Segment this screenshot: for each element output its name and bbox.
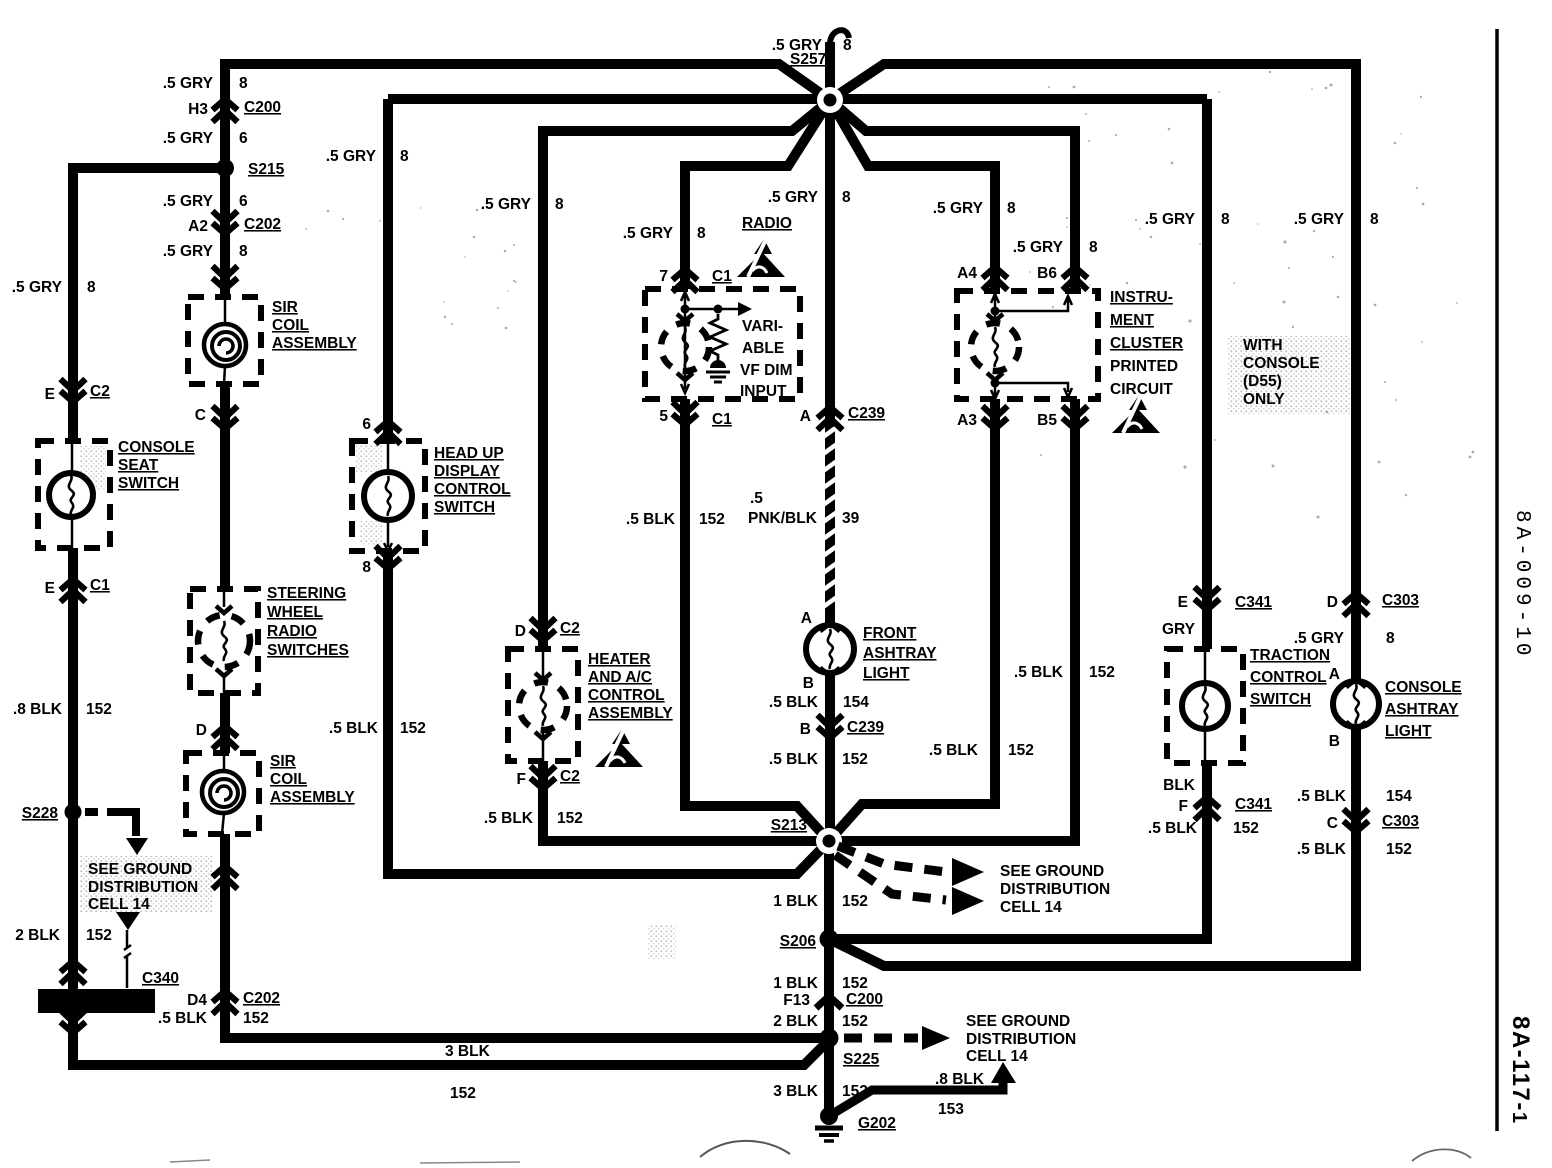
svg-text:DISTRIBUTION: DISTRIBUTION <box>966 1031 1076 1048</box>
wire: head-up column lower to S213 <box>388 551 829 874</box>
svg-text:.5 BLK: .5 BLK <box>1148 820 1198 837</box>
svg-text:STEERING: STEERING <box>267 585 346 602</box>
inline connector below SIR coil2 <box>213 877 238 889</box>
svg-text:152: 152 <box>1386 841 1412 858</box>
wire: S257 down center column to front ashtray lamp <box>825 100 835 626</box>
connector B5 (cluster) <box>1063 406 1088 418</box>
svg-text:D4: D4 <box>187 992 207 1009</box>
svg-text:CONTROL: CONTROL <box>434 481 511 498</box>
connector B C239 <box>818 715 843 727</box>
wire: front ashtray lamp to S213 <box>825 672 835 841</box>
svg-text:B6: B6 <box>1037 265 1057 282</box>
svg-text:6: 6 <box>239 130 248 147</box>
front ashtray light lamp <box>806 625 854 673</box>
svg-text:AND A/C: AND A/C <box>588 669 652 686</box>
svg-text:.8 BLK: .8 BLK <box>935 1071 985 1088</box>
svg-text:8: 8 <box>1089 239 1098 256</box>
svg-text:152: 152 <box>400 720 426 737</box>
svg-text:C202: C202 <box>244 216 281 233</box>
svg-text:D: D <box>515 623 526 640</box>
dashed stub S213 to ground distribution note (lower) <box>835 855 946 900</box>
svg-text:CONSOLE: CONSOLE <box>118 439 195 456</box>
svg-text:B: B <box>800 721 811 738</box>
console seat switch <box>38 441 110 548</box>
svg-text:.5 BLK: .5 BLK <box>158 1010 208 1027</box>
ESD symbol radio <box>737 252 785 277</box>
wire: S257 up stub with hook <box>825 42 835 100</box>
wire: traction control lower to S206 <box>829 762 1207 939</box>
svg-text:S215: S215 <box>248 161 285 178</box>
svg-text:.5 BLK: .5 BLK <box>1297 788 1347 805</box>
svg-text:VF DIM: VF DIM <box>740 362 793 379</box>
svg-text:.5 GRY: .5 GRY <box>163 193 214 210</box>
svg-text:F: F <box>517 771 526 788</box>
svg-text:C239: C239 <box>848 405 885 422</box>
connector 8 (head-up bottom) <box>376 546 401 558</box>
svg-text:SIR: SIR <box>272 299 298 316</box>
radio internal ground <box>710 360 726 368</box>
svg-text:E: E <box>45 580 55 597</box>
svg-text:C2: C2 <box>90 383 110 400</box>
svg-text:.5 GRY: .5 GRY <box>1145 211 1196 228</box>
svg-text:COIL: COIL <box>272 317 309 334</box>
heater and A/C control assembly <box>508 649 578 761</box>
svg-text:ASHTRAY: ASHTRAY <box>1385 701 1459 718</box>
inline connector above C340 <box>61 972 86 984</box>
connector D (to SIR coil2) <box>213 737 238 749</box>
svg-text:8: 8 <box>1221 211 1230 228</box>
connector C (SIR coil out) <box>213 406 238 418</box>
svg-text:152: 152 <box>450 1085 476 1102</box>
svg-text:A: A <box>801 610 812 627</box>
connector F13 C200 half <box>816 996 842 1008</box>
scan speckles <box>305 59 1474 518</box>
connector D C2 (heater) <box>531 618 556 630</box>
wire: console ashtray lamp to S206 <box>829 726 1356 966</box>
svg-text:.5 BLK: .5 BLK <box>769 751 819 768</box>
wire: center horizontal through S257 (x388 to x1207) <box>388 94 1207 104</box>
svg-text:SIR: SIR <box>270 753 296 770</box>
svg-text:S213: S213 <box>771 817 808 834</box>
svg-text:8: 8 <box>842 189 851 206</box>
svg-text:152: 152 <box>842 893 868 910</box>
svg-text:HEAD UP: HEAD UP <box>434 445 504 462</box>
wire: C340 to S225 (bottom left run) <box>73 1012 829 1065</box>
instrument cluster printed circuit box <box>957 291 1098 399</box>
svg-text:6: 6 <box>239 193 248 210</box>
connector 6 (head-up top) <box>376 432 401 444</box>
svg-text:CELL 14: CELL 14 <box>88 896 150 913</box>
wire: S257 to heater column (y=131) <box>543 100 830 649</box>
splice S257 <box>817 87 843 113</box>
radio variable resistor <box>710 314 726 361</box>
connector D4 C202 <box>213 1002 238 1014</box>
svg-text:CONTROL: CONTROL <box>1250 669 1327 686</box>
svg-text:CONSOLE: CONSOLE <box>1385 679 1462 696</box>
svg-text:6: 6 <box>362 416 371 433</box>
svg-text:152: 152 <box>86 701 112 718</box>
wire: S257 to radio column (y=166) <box>685 100 830 289</box>
wire: head-up column upper <box>383 99 393 441</box>
svg-text:152: 152 <box>842 1013 868 1030</box>
svg-text:B5: B5 <box>1037 412 1057 429</box>
svg-text:152: 152 <box>557 810 583 827</box>
svg-text:ASSEMBLY: ASSEMBLY <box>588 705 673 722</box>
svg-text:8: 8 <box>555 196 564 213</box>
ESD symbol heater <box>595 742 643 767</box>
svg-text:152: 152 <box>842 975 868 992</box>
svg-text:RADIO: RADIO <box>267 623 317 640</box>
svg-text:3 BLK: 3 BLK <box>773 1083 819 1100</box>
svg-text:S257: S257 <box>790 51 826 68</box>
svg-text:B: B <box>1329 733 1340 750</box>
ground G202 symbol <box>820 1107 838 1125</box>
svg-text:(D55): (D55) <box>1243 373 1282 390</box>
wire: S257 to cluster B6 (y=131 right) <box>830 100 1075 291</box>
svg-text:C2: C2 <box>560 768 580 785</box>
halftone patch below head-up lamp <box>360 521 382 545</box>
dashed stub S213 to ground distribution note (upper) <box>838 846 946 872</box>
svg-text:8: 8 <box>1370 211 1379 228</box>
wire: S215 west to console-seat column corner <box>73 168 229 441</box>
connector D C303 (console ashtray) <box>1344 604 1369 616</box>
svg-text:HEATER: HEATER <box>588 651 651 668</box>
svg-text:8: 8 <box>1007 200 1016 217</box>
svg-text:5: 5 <box>659 408 668 425</box>
svg-text:FRONT: FRONT <box>863 625 917 642</box>
svg-text:INSTRU-: INSTRU- <box>1110 289 1173 306</box>
svg-text:G202: G202 <box>858 1115 896 1132</box>
connector H3 C200 <box>213 110 238 122</box>
splice S225 <box>820 1029 839 1048</box>
svg-text:8: 8 <box>239 75 248 92</box>
svg-text:8A-009-10: 8A-009-10 <box>1510 510 1533 659</box>
connector C C303 (console ashtray) <box>1344 809 1369 821</box>
console ashtray light lamp <box>1333 681 1379 727</box>
wire: steering switches to SIR coil2 <box>220 693 230 753</box>
svg-text:C239: C239 <box>847 719 884 736</box>
svg-text:C200: C200 <box>846 991 883 1008</box>
svg-text:A: A <box>800 408 811 425</box>
svg-text:H3: H3 <box>188 101 208 118</box>
bottom scan curve marks <box>700 1141 790 1157</box>
wire: S213 down to G202 <box>824 841 834 1118</box>
svg-text:.5 BLK: .5 BLK <box>769 694 819 711</box>
svg-text:.5: .5 <box>750 490 763 507</box>
svg-text:C1: C1 <box>712 411 732 428</box>
cluster internal wiring top <box>991 291 999 320</box>
svg-text:C200: C200 <box>244 99 281 116</box>
svg-text:RADIO: RADIO <box>742 215 792 232</box>
connector A3 (cluster) <box>983 406 1008 418</box>
svg-text:LIGHT: LIGHT <box>863 665 910 682</box>
connector B6 (cluster) <box>1063 278 1088 290</box>
svg-text:LIGHT: LIGHT <box>1385 723 1432 740</box>
wire: S257 to instrument cluster A4 (y=166 right) <box>830 100 995 291</box>
svg-text:2 BLK: 2 BLK <box>773 1013 819 1030</box>
svg-text:SEE GROUND: SEE GROUND <box>966 1013 1070 1030</box>
svg-text:154: 154 <box>1386 788 1412 805</box>
dashed stub S225 to ground distribution note <box>844 1034 918 1043</box>
wire: S257 east to traction control column <box>1202 99 1212 649</box>
svg-text:.5 BLK: .5 BLK <box>929 742 979 759</box>
svg-text:SWITCH: SWITCH <box>434 499 495 516</box>
wire: heater column lower to S213 <box>543 761 829 841</box>
radio internal wiring <box>681 289 689 393</box>
cluster internal wiring bottom <box>991 379 1000 388</box>
svg-text:A3: A3 <box>957 412 977 429</box>
connector C340 (black block) <box>38 989 155 1013</box>
svg-text:SWITCHES: SWITCHES <box>267 642 349 659</box>
svg-text:CELL 14: CELL 14 <box>1000 899 1062 916</box>
svg-text:3 BLK: 3 BLK <box>445 1043 491 1060</box>
svg-text:.5 GRY: .5 GRY <box>623 225 674 242</box>
svg-text:SWITCH: SWITCH <box>118 475 179 492</box>
connector A2 C202 <box>213 211 238 223</box>
svg-text:F: F <box>1179 798 1188 815</box>
svg-text:ASSEMBLY: ASSEMBLY <box>270 789 355 806</box>
halftone patch behind SEE GROUND note left <box>80 856 212 912</box>
svg-text:.5 BLK: .5 BLK <box>1297 841 1347 858</box>
svg-text:.5 BLK: .5 BLK <box>484 810 534 827</box>
radio lamp <box>661 323 709 371</box>
svg-text:D: D <box>1327 594 1338 611</box>
PNK/BLK striped wire hatch <box>823 427 837 607</box>
svg-text:A: A <box>1329 666 1340 683</box>
connector A C239 <box>818 418 843 430</box>
svg-text:C2: C2 <box>560 620 580 637</box>
wire: G202 branch .8 BLK 153 <box>829 1080 1003 1116</box>
svg-text:S228: S228 <box>22 805 59 822</box>
svg-text:BLK: BLK <box>1163 777 1196 794</box>
svg-text:.5 BLK: .5 BLK <box>329 720 379 737</box>
connector 5 C1 (radio) <box>673 402 698 414</box>
svg-text:152: 152 <box>1233 820 1259 837</box>
connector E C341 (traction) <box>1195 587 1220 599</box>
svg-text:.5 GRY: .5 GRY <box>1294 211 1345 228</box>
svg-text:A2: A2 <box>188 218 208 235</box>
svg-text:39: 39 <box>842 510 860 527</box>
dashed stub S228 to ground distribution note <box>85 808 120 816</box>
svg-text:C340: C340 <box>142 970 179 987</box>
wire: cluster B5 down to S213 <box>829 399 1075 841</box>
svg-text:.5 GRY: .5 GRY <box>481 196 532 213</box>
arrow to ground distribution (G202 branch) <box>991 1062 1016 1083</box>
svg-text:B: B <box>803 675 814 692</box>
svg-text:SEE GROUND: SEE GROUND <box>88 861 192 878</box>
svg-text:C341: C341 <box>1235 796 1272 813</box>
halftone patch near S206 <box>648 925 676 959</box>
svg-text:DISPLAY: DISPLAY <box>434 463 500 480</box>
svg-text:INPUT: INPUT <box>740 383 787 400</box>
svg-text:.5 GRY: .5 GRY <box>12 279 63 296</box>
svg-text:.5 BLK: .5 BLK <box>1014 664 1064 681</box>
svg-text:8: 8 <box>697 225 706 242</box>
splice S206 <box>820 930 839 949</box>
connector A4 (cluster) <box>983 278 1008 290</box>
svg-text:8: 8 <box>843 37 852 54</box>
wire: SIR coil1 to steering wheel switches column <box>220 383 230 589</box>
inline connector below C340 <box>61 1010 86 1022</box>
steering wheel radio switches <box>190 589 258 693</box>
svg-text:.5 GRY: .5 GRY <box>1294 630 1345 647</box>
svg-text:152: 152 <box>243 1010 269 1027</box>
svg-text:DISTRIBUTION: DISTRIBUTION <box>88 879 198 896</box>
svg-text:PNK/BLK: PNK/BLK <box>748 510 818 527</box>
svg-text:E: E <box>1178 594 1188 611</box>
connector 7 C1 (radio) <box>673 280 698 292</box>
svg-text:.5 GRY: .5 GRY <box>163 75 214 92</box>
page border right <box>1495 29 1499 1131</box>
svg-text:8: 8 <box>239 243 248 260</box>
svg-text:ASSEMBLY: ASSEMBLY <box>272 335 357 352</box>
svg-text:A4: A4 <box>957 265 977 282</box>
svg-text:C1: C1 <box>712 268 732 285</box>
svg-text:CLUSTER: CLUSTER <box>1110 335 1183 352</box>
svg-text:152: 152 <box>699 511 725 528</box>
halftone patch in console seat switch box <box>80 446 106 490</box>
wire: cluster A3 down to S213 <box>829 399 995 841</box>
svg-text:8A-117-1: 8A-117-1 <box>1507 1016 1534 1125</box>
connector F C341 (traction) <box>1195 808 1220 820</box>
svg-text:CONSOLE: CONSOLE <box>1243 355 1320 372</box>
svg-text:.5 GRY: .5 GRY <box>768 189 819 206</box>
svg-text:DISTRIBUTION: DISTRIBUTION <box>1000 881 1110 898</box>
svg-text:C: C <box>195 407 206 424</box>
svg-text:.8 BLK: .8 BLK <box>13 701 63 718</box>
svg-text:ASHTRAY: ASHTRAY <box>863 645 937 662</box>
svg-text:152: 152 <box>842 751 868 768</box>
svg-text:PRINTED: PRINTED <box>1110 358 1178 375</box>
svg-text:.5 GRY: .5 GRY <box>933 200 984 217</box>
svg-text:8: 8 <box>87 279 96 296</box>
wire: S257 to H3/C200 branch (left top loop, x=225) <box>225 64 830 297</box>
svg-text:152: 152 <box>1089 664 1115 681</box>
traction control switch <box>1167 649 1243 763</box>
svg-text:.5 GRY: .5 GRY <box>163 243 214 260</box>
svg-text:7: 7 <box>659 268 668 285</box>
svg-text:152: 152 <box>842 1083 868 1100</box>
SIR coil assembly 1 (upper) <box>188 297 261 384</box>
svg-text:COIL: COIL <box>270 771 307 788</box>
svg-text:C341: C341 <box>1235 594 1272 611</box>
arrow into SEE GROUND text below S228 <box>116 912 140 930</box>
svg-text:C303: C303 <box>1382 813 1419 830</box>
svg-text:ABLE: ABLE <box>742 340 784 357</box>
connector E C1 (console seat) <box>61 590 86 602</box>
svg-text:CELL 14: CELL 14 <box>966 1048 1028 1065</box>
svg-text:2 BLK: 2 BLK <box>15 927 61 944</box>
svg-text:WHEEL: WHEEL <box>267 604 323 621</box>
svg-text:152: 152 <box>1008 742 1034 759</box>
connector E C2 (console seat) <box>61 379 86 391</box>
svg-text:SEAT: SEAT <box>118 457 159 474</box>
svg-text:GRY: GRY <box>1162 621 1196 638</box>
svg-text:CONTROL: CONTROL <box>588 687 665 704</box>
svg-text:MENT: MENT <box>1110 312 1154 329</box>
thin wire from arrow to C340 <box>124 930 131 988</box>
wire: console seat switch lower column to C340 <box>68 548 78 989</box>
connector F C2 (heater) <box>531 766 556 778</box>
SIR coil assembly 2 (lower) <box>186 753 259 834</box>
splice S215 <box>216 159 234 177</box>
svg-text:8: 8 <box>400 148 409 165</box>
cluster lamp <box>971 323 1019 371</box>
svg-text:C202: C202 <box>243 990 280 1007</box>
svg-text:SEE GROUND: SEE GROUND <box>1000 863 1104 880</box>
svg-text:8: 8 <box>362 559 371 576</box>
svg-text:E: E <box>45 386 55 403</box>
svg-text:S225: S225 <box>843 1051 880 1068</box>
svg-text:C: C <box>1327 815 1338 832</box>
svg-text:152: 152 <box>86 927 112 944</box>
svg-text:.5 GRY: .5 GRY <box>326 148 377 165</box>
svg-text:F13: F13 <box>783 992 810 1009</box>
svg-text:.5 GRY: .5 GRY <box>1013 239 1064 256</box>
ESD symbol cluster <box>1112 408 1160 433</box>
halftone patch behind WITH CONSOLE note <box>1228 336 1350 414</box>
svg-text:1 BLK: 1 BLK <box>773 975 819 992</box>
svg-text:.5 BLK: .5 BLK <box>626 511 676 528</box>
svg-text:C303: C303 <box>1382 592 1419 609</box>
svg-text:153: 153 <box>938 1101 964 1118</box>
halftone patch in head-up box <box>356 444 382 472</box>
svg-text:154: 154 <box>843 694 869 711</box>
wire: radio column lower to S213 <box>685 399 829 841</box>
svg-text:S206: S206 <box>780 933 817 950</box>
wire: SIR coil2 down to S225 horizontal <box>225 834 822 1038</box>
svg-text:D: D <box>196 722 207 739</box>
svg-text:CIRCUIT: CIRCUIT <box>1110 381 1173 398</box>
svg-text:VARI-: VARI- <box>742 318 783 335</box>
svg-text:1 BLK: 1 BLK <box>773 893 819 910</box>
svg-text:C1: C1 <box>90 577 110 594</box>
wire: S257 to console ashtray column (y=67 right) <box>830 64 1356 682</box>
front ashtray top chevron <box>820 623 840 631</box>
splice S228 <box>65 804 82 821</box>
svg-text:SWITCH: SWITCH <box>1250 691 1311 708</box>
radio box <box>645 289 800 399</box>
inline connector below C202 <box>213 266 238 278</box>
svg-text:TRACTION: TRACTION <box>1250 647 1330 664</box>
splice S213 <box>816 828 842 854</box>
svg-text:.5 GRY: .5 GRY <box>163 130 214 147</box>
svg-text:WITH: WITH <box>1243 337 1283 354</box>
head up display control switch <box>352 441 425 551</box>
svg-text:ONLY: ONLY <box>1243 391 1285 408</box>
svg-text:8: 8 <box>1386 630 1395 647</box>
